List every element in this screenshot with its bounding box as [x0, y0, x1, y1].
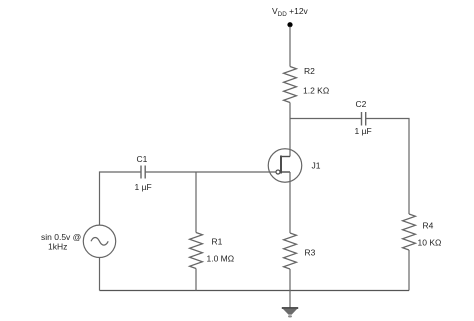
node VDD terminal dot: [287, 22, 292, 27]
svg-text:R4: R4: [423, 221, 434, 231]
resistor R4: [403, 214, 416, 250]
capacitor C1: [141, 166, 145, 179]
source V1 sine symbol: [91, 237, 108, 245]
wire C2 right plate to right column: [366, 119, 409, 215]
svg-text:R3: R3: [305, 248, 316, 258]
svg-text:1 µF: 1 µF: [135, 182, 152, 192]
wire VDD to R2 top: [289, 27, 291, 67]
svg-text:10 KΩ: 10 KΩ: [418, 238, 442, 248]
wire junction to C2 left plate: [290, 118, 362, 120]
wire bottom rail: [100, 290, 410, 292]
svg-text:J1: J1: [312, 161, 321, 171]
resistor R2: [284, 67, 297, 103]
svg-text:1.2 KΩ: 1.2 KΩ: [303, 86, 329, 96]
resistor R1: [190, 233, 203, 269]
wire left column top corner to AC source: [100, 172, 142, 225]
svg-text:1 µF: 1 µF: [355, 126, 372, 136]
transistor J1 source bend: [281, 171, 290, 173]
svg-text:sin 0.5v @: sin 0.5v @: [41, 232, 81, 242]
wire source to R3: [289, 172, 291, 233]
wire R1 branch: [195, 172, 197, 233]
resistor R3: [284, 233, 297, 269]
source V1 sin circle: [83, 225, 115, 257]
svg-text:1kHz: 1kHz: [48, 242, 67, 252]
ground symbol: [282, 308, 298, 318]
transistor J1 body circle: [268, 149, 302, 183]
svg-text:VDD +12v: VDD +12v: [272, 6, 309, 18]
wire R3 bottom through rail to ground: [289, 269, 291, 308]
svg-text:1.0 MΩ: 1.0 MΩ: [207, 254, 235, 264]
wire R1 bottom to bottom rail: [195, 269, 197, 291]
wire R2 bottom to drain (through junction): [289, 103, 291, 157]
svg-text:R1: R1: [212, 237, 223, 247]
transistor J1 gate bubble: [276, 170, 280, 174]
transistor J1 drain bend: [281, 156, 290, 158]
transistor J1 channel bar: [280, 156, 282, 174]
svg-text:C2: C2: [356, 99, 367, 109]
wire AC source bottom to bottom rail: [99, 257, 101, 290]
wire R4 bottom to bottom rail: [408, 250, 410, 291]
svg-text:R2: R2: [304, 66, 315, 76]
wire C1 to gate bubble: [145, 171, 276, 173]
capacitor C2: [362, 112, 366, 126]
svg-text:C1: C1: [137, 154, 148, 164]
